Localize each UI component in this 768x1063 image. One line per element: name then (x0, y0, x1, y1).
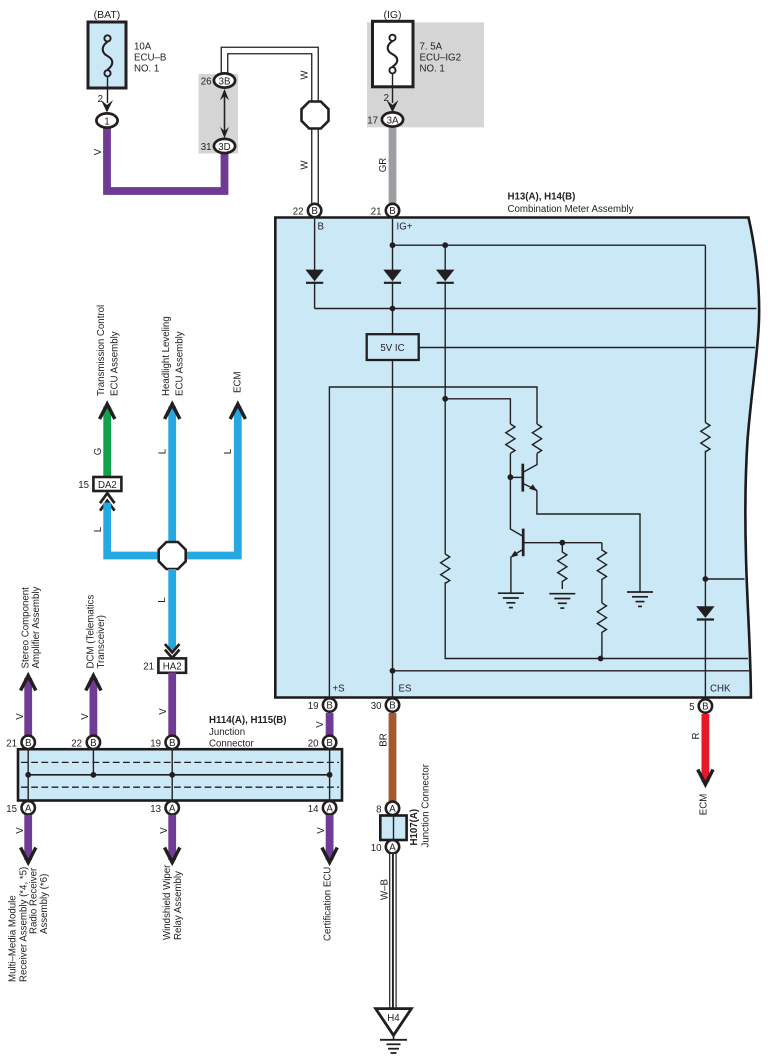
wire W (splice octagon to pin 22) (311, 126, 319, 205)
svg-text:21: 21 (143, 661, 154, 672)
svg-text:B: B (90, 738, 96, 749)
svg-text:B: B (326, 738, 332, 749)
svg-text:HA2: HA2 (163, 661, 182, 672)
connector block 3B/3D (gray) (199, 74, 239, 154)
wire V (junction pin 21 up to Stereo Component Amplifier) (24, 678, 32, 737)
svg-text:Windshield Wiper: Windshield Wiper (162, 864, 173, 940)
svg-text:ECU–IG2: ECU–IG2 (420, 53, 461, 64)
wire CHK branch to edge (705, 578, 744, 580)
svg-text:CHK: CHK (710, 684, 731, 695)
wire Q2 emitter to ground G1 (510, 557, 512, 593)
svg-text:B: B (311, 206, 317, 217)
svg-text:19: 19 (150, 738, 161, 749)
svg-text:IG+: IG+ (397, 222, 413, 233)
wire CHK column (704, 245, 706, 422)
svg-text:W–B: W–B (380, 879, 391, 900)
svg-text:3B: 3B (219, 77, 231, 88)
svg-text:+S: +S (333, 684, 346, 695)
wire GR (3A to pin 21) (389, 128, 397, 205)
svg-text:Multi–Media Module: Multi–Media Module (8, 895, 19, 982)
svg-text:B: B (318, 222, 324, 233)
wire L (splice down to HA2) (168, 569, 176, 650)
svg-text:G: G (93, 448, 104, 456)
wire ES branch rail (393, 670, 750, 672)
junction connector H107(A) (380, 816, 406, 841)
ground H4 (376, 1009, 412, 1036)
svg-text:Certification ECU: Certification ECU (323, 867, 334, 941)
pin 8 A (386, 802, 399, 815)
pin 19 B (166, 736, 179, 749)
wire IG+ pin21 to diode D2 (392, 219, 394, 271)
svg-text:Amplifier Assembly: Amplifier Assembly (31, 587, 42, 669)
svg-text:V: V (15, 827, 26, 834)
wire V (pin 14 down to Certification ECU) (326, 815, 334, 860)
node junction dot bus (390, 306, 396, 312)
wire pin column 19/13 (171, 750, 173, 800)
wire pin column 22 (92, 750, 94, 775)
svg-text:V: V (316, 827, 327, 834)
svg-text:L: L (223, 448, 234, 454)
svg-text:19: 19 (308, 701, 319, 712)
svg-text:A: A (389, 843, 396, 854)
wire IG+ branch to right column (393, 244, 706, 246)
pin 22 B (87, 736, 100, 749)
svg-text:DA2: DA2 (98, 480, 117, 491)
wire B pin22 to diode D1 (314, 219, 316, 271)
splice octagon J2 (159, 542, 186, 569)
svg-text:Transceiver): Transceiver) (96, 615, 107, 668)
svg-text:Junction Connector: Junction Connector (421, 763, 432, 847)
connector 3A (382, 112, 403, 126)
svg-text:30: 30 (371, 701, 382, 712)
node junction dot IG+ (390, 242, 396, 248)
svg-text:ECM: ECM (233, 371, 244, 393)
svg-text:L: L (93, 526, 104, 532)
svg-text:Assembly (*6): Assembly (*6) (39, 874, 50, 934)
wire R1 to Q1 base and Q2 collector (510, 454, 522, 537)
svg-text:Combination Meter Assembly: Combination Meter Assembly (508, 204, 634, 215)
wire internal bus (28, 774, 329, 776)
wire +S riser (329, 387, 537, 702)
svg-text:5V IC: 5V IC (380, 343, 404, 354)
splice octagon J1 (302, 102, 329, 129)
connector DA2 (93, 477, 121, 491)
svg-text:15: 15 (6, 804, 17, 815)
svg-text:22: 22 (293, 207, 304, 218)
connector 3B (214, 73, 235, 87)
svg-text:L: L (158, 448, 169, 454)
svg-text:L: L (157, 597, 168, 603)
wire L (DA2 chevron down to splice octagon) (107, 503, 162, 556)
wire W (3B up and over to splice octagon) (225, 51, 316, 105)
svg-text:26: 26 (201, 77, 212, 88)
transistor Q2 (522, 529, 525, 557)
svg-text:10: 10 (371, 843, 382, 854)
svg-text:A: A (25, 804, 32, 815)
svg-text:H114(A), H115(B): H114(A), H115(B) (209, 715, 287, 726)
svg-text:ES: ES (399, 684, 412, 695)
wire V (pin 15 down to Multi-Media Module) (24, 815, 32, 860)
wire 5V IC output right (419, 347, 755, 349)
wire L (ECM down to splice) (183, 407, 238, 556)
svg-text:A: A (389, 804, 396, 815)
svg-text:7. 5A: 7. 5A (420, 42, 443, 53)
node junction dot bottom rail (598, 656, 604, 662)
wire V (junction pin 22 up to DCM) (90, 678, 98, 737)
svg-text:21: 21 (371, 207, 382, 218)
svg-text:2: 2 (98, 94, 103, 105)
wire pin column 21/15 (27, 750, 29, 800)
pin 2 of BAT fuse (107, 77, 109, 103)
svg-text:15: 15 (78, 480, 89, 491)
resistor R3 (558, 543, 567, 589)
svg-text:V: V (315, 721, 326, 728)
svg-text:20: 20 (308, 738, 319, 749)
svg-text:H107(A): H107(A) (409, 809, 420, 846)
svg-text:Stereo Component: Stereo Component (21, 587, 32, 669)
pin 21 B (22, 736, 35, 749)
pin 13 A (166, 801, 179, 814)
node junction dot Q1 base (508, 474, 514, 480)
svg-text:H13(A), H14(B): H13(A), H14(B) (508, 192, 576, 203)
wire V (pin 13 down to Windshield Wiper Relay) (168, 815, 176, 860)
svg-text:A: A (169, 804, 176, 815)
svg-text:31: 31 (201, 142, 212, 153)
svg-text:(IG): (IG) (383, 9, 401, 21)
svg-text:V: V (158, 708, 169, 715)
svg-text:ECU Assembly: ECU Assembly (175, 331, 186, 396)
svg-text:B: B (389, 701, 395, 712)
pin 21 B (386, 204, 399, 217)
pin 5 B (CHK) (699, 699, 712, 712)
svg-text:Junction: Junction (209, 727, 245, 738)
fuse block gray (IG) (367, 22, 484, 127)
svg-text:B: B (389, 206, 395, 217)
node junction dot ES rail (390, 668, 396, 674)
svg-text:V: V (159, 827, 170, 834)
svg-text:3D: 3D (218, 142, 230, 153)
resistor R7 (701, 423, 710, 452)
svg-text:3A: 3A (387, 116, 399, 127)
combination meter assembly H13(A),H14(B) box (275, 218, 759, 698)
node junction dot CHK (703, 576, 709, 582)
wire D1 to bus (314, 282, 316, 309)
ground G2 (549, 594, 575, 608)
wire link 3B to 3D (double arrow) (224, 92, 226, 134)
svg-text:V: V (80, 713, 91, 720)
pin 14 A (323, 801, 336, 814)
svg-text:Headlight Leveling: Headlight Leveling (161, 316, 172, 396)
node junction dot D3 top (442, 242, 448, 248)
resistor R4 (597, 543, 606, 603)
pin 2 of IG fuse (392, 74, 394, 104)
wire link chevrons above HA2 (165, 644, 180, 652)
svg-text:Relay Assembly: Relay Assembly (173, 871, 184, 940)
svg-text:8: 8 (376, 804, 381, 815)
svg-text:21: 21 (6, 738, 17, 749)
wire R7 to diode D4 (704, 451, 706, 607)
resistor R2 (532, 424, 541, 453)
resistor R1 (506, 424, 515, 453)
wire dashed bus bottom (21, 786, 339, 788)
diode D4 (696, 606, 714, 618)
svg-text:Connector: Connector (209, 739, 254, 750)
wire V (meter pin 19 +S down to junction pin 20) (326, 713, 334, 737)
svg-text:BR: BR (379, 733, 390, 746)
ground G1 (498, 593, 524, 607)
svg-text:B: B (25, 738, 31, 749)
node junction dot base feed (442, 396, 448, 402)
wire D3 down through crossings (444, 282, 446, 555)
svg-text:22: 22 (71, 738, 82, 749)
svg-text:13: 13 (150, 804, 161, 815)
pin 20 B (323, 736, 336, 749)
transistor Q1 (521, 464, 524, 492)
node junction dot Q2 base (559, 540, 565, 546)
svg-text:ECU Assembly: ECU Assembly (110, 331, 121, 396)
wire bus below diodes (315, 308, 757, 310)
svg-text:NO. 1: NO. 1 (134, 64, 159, 75)
svg-text:GR: GR (378, 158, 389, 173)
svg-text:B: B (702, 702, 708, 713)
svg-text:1: 1 (104, 117, 109, 128)
pin 30 B (ES) (386, 698, 399, 711)
svg-text:B: B (169, 738, 175, 749)
wire Q1 emitter to ground G3 (537, 490, 640, 592)
svg-text:ECU–B: ECU–B (134, 53, 166, 64)
svg-text:H4: H4 (387, 1013, 400, 1024)
svg-text:A: A (326, 804, 333, 815)
connector 1 (96, 113, 117, 127)
svg-text:10A: 10A (134, 42, 152, 53)
svg-text:W: W (300, 160, 311, 170)
svg-text:R: R (691, 733, 702, 740)
svg-text:W: W (300, 70, 311, 80)
wire R6 down to bottom rail (445, 582, 748, 658)
diode D1 (305, 270, 323, 282)
wire V (HA2 to junction pin 19) (168, 673, 176, 739)
diode D3 (436, 270, 454, 282)
svg-text:DCM (Telematics: DCM (Telematics (86, 595, 97, 669)
wire 5V IC down to ES (392, 360, 394, 702)
wire G (DA2 to Transmission Control ECU) (103, 407, 111, 478)
wire R (pin 5 CHK down to ECM) (702, 714, 710, 782)
wire dashed bus top (21, 761, 339, 763)
node junction dots on bus (25, 772, 31, 778)
wire branch down to diode D3 (444, 245, 446, 270)
svg-text:ECM: ECM (699, 794, 710, 816)
wire W-B (H107 pin 10 down to ground H4) (389, 854, 397, 1008)
5V IC U1 (367, 334, 419, 360)
wire link chevrons below DA2 (100, 493, 115, 503)
wire D2 to 5V IC (392, 282, 394, 335)
svg-text:Transmission Control: Transmission Control (96, 305, 107, 396)
wire pin column 20/14 (329, 750, 331, 800)
svg-text:Radio Receiver: Radio Receiver (29, 867, 40, 934)
wire L (Headlight Leveling down to splice) (168, 407, 176, 547)
svg-text:NO. 1: NO. 1 (420, 64, 445, 75)
svg-text:17: 17 (367, 116, 378, 127)
wire BR (meter pin 30 ES down to H107 pin 8) (389, 713, 397, 802)
wire V (connector 1 to connector 3D) (107, 125, 225, 191)
svg-text:V: V (15, 713, 26, 720)
svg-text:V: V (93, 148, 104, 155)
connector HA2 (158, 658, 186, 672)
svg-text:5: 5 (689, 702, 694, 713)
svg-text:(BAT): (BAT) (94, 9, 121, 21)
resistor R6 (441, 554, 450, 583)
svg-text:14: 14 (308, 804, 319, 815)
pin 15 A (22, 801, 35, 814)
pin 19 B (+S) (323, 698, 336, 711)
pin 10 A (386, 840, 399, 853)
connector 3D (214, 139, 235, 153)
svg-text:B: B (326, 701, 332, 712)
pin 22 B (308, 204, 321, 217)
ground G3 (627, 592, 653, 606)
wire D4 to pin 5 (704, 619, 706, 703)
wire to R1 (445, 399, 510, 424)
diode D2 (383, 270, 401, 282)
resistor R5 (597, 603, 606, 659)
